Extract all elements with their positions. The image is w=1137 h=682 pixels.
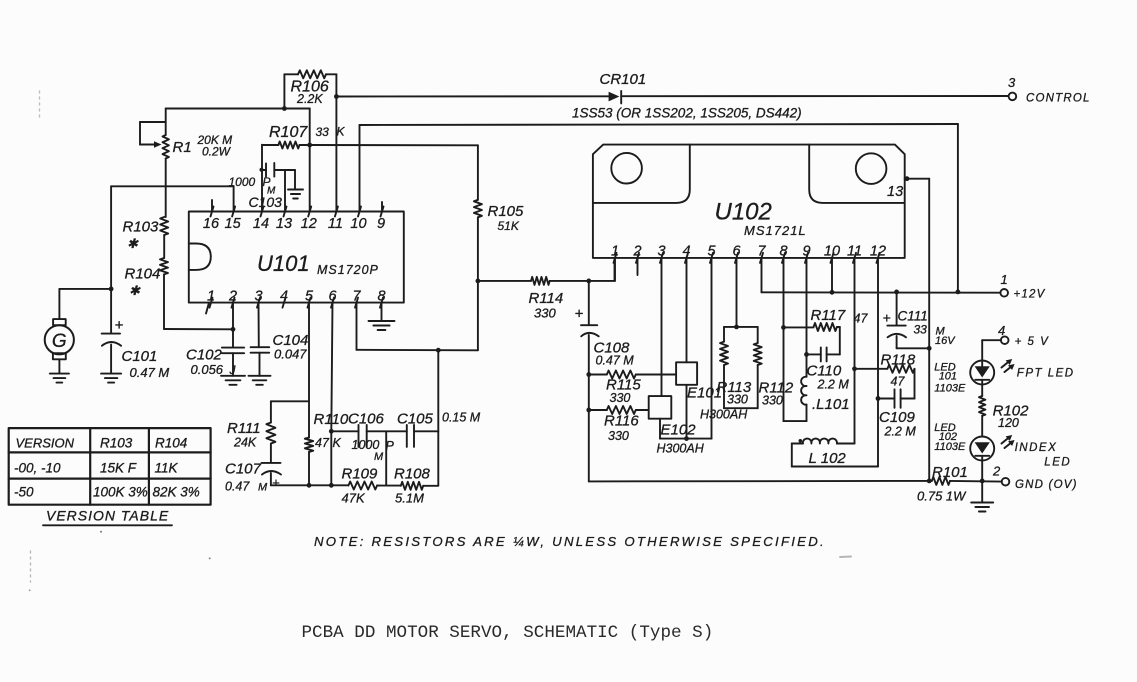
svg-text:47: 47 xyxy=(315,436,330,450)
svg-text:13: 13 xyxy=(276,216,292,232)
svg-text:2.2K: 2.2K xyxy=(296,92,323,106)
svg-text:+: + xyxy=(575,306,584,323)
svg-text:13: 13 xyxy=(887,184,903,200)
svg-text:101: 101 xyxy=(939,371,957,383)
svg-text:INDEX: INDEX xyxy=(1015,442,1058,454)
svg-text:7: 7 xyxy=(757,244,766,260)
svg-text:0.056: 0.056 xyxy=(191,362,224,377)
svg-text:0.2W: 0.2W xyxy=(202,145,232,159)
svg-text:R103: R103 xyxy=(123,219,160,236)
svg-text:51K: 51K xyxy=(498,219,520,233)
svg-text:MS1720P: MS1720P xyxy=(317,263,379,277)
svg-text:47: 47 xyxy=(891,375,906,389)
svg-text:-00, -10: -00, -10 xyxy=(14,461,61,476)
svg-text:.L101: .L101 xyxy=(812,396,850,413)
svg-text:330: 330 xyxy=(762,394,783,408)
svg-text:8: 8 xyxy=(779,244,787,260)
svg-text:16: 16 xyxy=(203,216,220,232)
svg-text:CONTROL: CONTROL xyxy=(1026,93,1091,105)
svg-text:2.2 M: 2.2 M xyxy=(884,425,917,439)
svg-text:R111: R111 xyxy=(227,420,261,437)
svg-text:R114: R114 xyxy=(529,290,564,307)
svg-text:14: 14 xyxy=(253,216,269,232)
svg-text:0.47 M: 0.47 M xyxy=(596,354,635,368)
svg-text:R107: R107 xyxy=(269,124,308,141)
svg-text:R101: R101 xyxy=(932,464,968,481)
svg-text:9: 9 xyxy=(377,216,385,232)
svg-text:+12V: +12V xyxy=(1014,289,1046,301)
svg-text:12: 12 xyxy=(870,244,886,260)
svg-text:4: 4 xyxy=(682,244,690,260)
svg-text:0.047: 0.047 xyxy=(274,347,307,362)
svg-text:5: 5 xyxy=(707,244,716,260)
svg-text:5.1M: 5.1M xyxy=(395,491,424,506)
svg-text:11: 11 xyxy=(328,216,343,232)
svg-text:R103: R103 xyxy=(100,436,133,451)
svg-text:R110: R110 xyxy=(314,411,349,428)
svg-text:C109: C109 xyxy=(879,409,916,426)
svg-text:C103: C103 xyxy=(249,194,283,210)
svg-text:24K: 24K xyxy=(233,436,257,450)
svg-text:47K: 47K xyxy=(342,491,366,506)
svg-text:C101: C101 xyxy=(122,348,158,365)
svg-text:33: 33 xyxy=(316,125,330,139)
svg-text:3: 3 xyxy=(254,289,262,305)
svg-text:+: + xyxy=(883,310,891,326)
svg-text:0.47: 0.47 xyxy=(225,480,250,494)
svg-text:GND (OV): GND (OV) xyxy=(1015,479,1078,491)
svg-text:330: 330 xyxy=(608,429,629,443)
svg-text:3: 3 xyxy=(1008,75,1016,90)
svg-text:G: G xyxy=(52,331,67,352)
svg-text:33: 33 xyxy=(914,323,928,337)
svg-text:J: J xyxy=(229,363,237,377)
svg-text:120: 120 xyxy=(998,416,1019,430)
svg-text:R1: R1 xyxy=(173,139,192,156)
svg-text:1000: 1000 xyxy=(229,175,256,189)
svg-text:2.2 M: 2.2 M xyxy=(817,378,850,392)
svg-text:1: 1 xyxy=(611,244,619,260)
svg-text:✱: ✱ xyxy=(129,283,141,298)
svg-text:C105: C105 xyxy=(397,410,434,427)
svg-text:0.75 1W: 0.75 1W xyxy=(917,489,967,504)
svg-text:3: 3 xyxy=(657,244,665,260)
svg-text:2: 2 xyxy=(992,464,1001,479)
svg-text:R108: R108 xyxy=(394,466,431,483)
svg-text:1103E: 1103E xyxy=(934,441,966,453)
svg-text:4: 4 xyxy=(998,323,1005,338)
svg-text:+ 5 V: + 5 V xyxy=(1015,336,1050,348)
svg-text:100K 3%: 100K 3% xyxy=(93,485,148,500)
svg-text:CR101: CR101 xyxy=(600,71,647,88)
svg-text:P: P xyxy=(386,439,395,453)
svg-text:82K 3%: 82K 3% xyxy=(153,485,200,500)
svg-text:MS1721L: MS1721L xyxy=(744,223,807,238)
svg-text:VERSION TABLE: VERSION TABLE xyxy=(46,508,169,524)
svg-text:10: 10 xyxy=(824,244,840,260)
svg-text:NOTE: RESISTORS ARE ¼W, UNLESS: NOTE: RESISTORS ARE ¼W, UNLESS OTHERWISE… xyxy=(314,534,826,549)
svg-text:2: 2 xyxy=(228,289,237,305)
svg-text:R118: R118 xyxy=(881,352,916,369)
svg-text:15: 15 xyxy=(225,216,242,232)
svg-text:1SS53 (OR 1SS202, 1SS205, DS44: 1SS53 (OR 1SS202, 1SS205, DS442) xyxy=(572,106,802,121)
svg-text:15K F: 15K F xyxy=(100,461,137,476)
svg-text:1: 1 xyxy=(1001,272,1008,287)
svg-text:R109: R109 xyxy=(342,466,379,483)
svg-text:5: 5 xyxy=(305,289,314,305)
svg-text:U101: U101 xyxy=(257,251,310,276)
svg-text:VERSION: VERSION xyxy=(16,436,75,451)
svg-text:4: 4 xyxy=(280,289,288,305)
svg-text:330: 330 xyxy=(610,391,631,405)
svg-text:✱: ✱ xyxy=(127,236,139,251)
svg-text:M: M xyxy=(374,451,384,463)
svg-text:C106: C106 xyxy=(348,410,385,427)
svg-text:R105: R105 xyxy=(488,203,525,220)
svg-text:+: + xyxy=(272,475,280,490)
svg-text:PCBA DD MOTOR SERVO, SCHEMATIC: PCBA DD MOTOR SERVO, SCHEMATIC (Type S) xyxy=(302,623,714,643)
svg-text:6: 6 xyxy=(732,244,741,260)
svg-text:1103E: 1103E xyxy=(934,382,966,394)
svg-text:11K: 11K xyxy=(155,461,179,476)
svg-text:8: 8 xyxy=(377,289,385,305)
svg-text:R117: R117 xyxy=(811,307,846,324)
svg-text:U102: U102 xyxy=(715,199,772,226)
svg-text:10: 10 xyxy=(350,216,366,232)
svg-text:9: 9 xyxy=(802,244,810,260)
svg-text:C102: C102 xyxy=(186,347,223,364)
svg-text:-50: -50 xyxy=(14,485,34,500)
svg-text:LED: LED xyxy=(1044,457,1071,469)
svg-text:C107: C107 xyxy=(225,461,262,478)
svg-text:47: 47 xyxy=(854,312,869,326)
svg-text:H300AH: H300AH xyxy=(700,408,748,422)
svg-text:K: K xyxy=(333,436,342,450)
svg-text:R116: R116 xyxy=(604,413,639,430)
svg-text:R104: R104 xyxy=(155,436,187,451)
svg-text:2: 2 xyxy=(632,244,641,260)
svg-text:H300AH: H300AH xyxy=(657,442,705,456)
svg-text:330: 330 xyxy=(727,393,748,407)
svg-text:6: 6 xyxy=(328,289,337,305)
svg-text:M: M xyxy=(258,482,268,494)
svg-text:11: 11 xyxy=(847,244,862,260)
svg-text:FPT LED: FPT LED xyxy=(1017,368,1075,380)
svg-text:L 102: L 102 xyxy=(809,450,847,467)
svg-text:R104: R104 xyxy=(125,266,161,283)
svg-text:12: 12 xyxy=(301,216,317,232)
svg-text:E102: E102 xyxy=(661,422,697,439)
svg-text:+: + xyxy=(115,317,124,334)
svg-text:0.15 M: 0.15 M xyxy=(442,411,481,425)
svg-text:1: 1 xyxy=(207,289,215,305)
svg-text:16V: 16V xyxy=(935,335,956,347)
svg-text:K: K xyxy=(337,125,346,139)
svg-text:7: 7 xyxy=(352,289,361,305)
svg-text:330: 330 xyxy=(534,306,556,321)
svg-text:1000: 1000 xyxy=(352,438,380,452)
svg-text:C111: C111 xyxy=(898,309,928,324)
svg-text:0.47 M: 0.47 M xyxy=(130,365,170,380)
